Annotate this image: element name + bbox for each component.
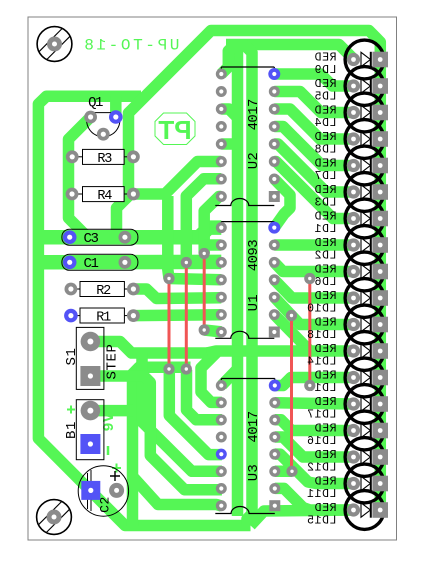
LED LD7 (345, 146, 384, 185)
pad U3 right pin row 5 (269, 449, 280, 460)
pad U2 right pin row 6 (269, 156, 280, 167)
svg-text:RED: RED (314, 502, 337, 515)
wire top bus + LED cathode bus (129, 31, 381, 511)
pad U1 right pin row 1 (blue) (268, 222, 280, 234)
pad U1 left pin row 7 (216, 327, 227, 338)
wire U1 p10 to LD18 (274, 297, 353, 324)
pad B1 plus (81, 401, 101, 421)
svg-text:U1: U1 (246, 294, 262, 311)
wire interior bus 1 (230, 45, 238, 517)
red jumper 1 (168, 279, 171, 370)
LED LD11 (345, 464, 384, 503)
pad R1 right (127, 309, 140, 322)
pad R2 left (65, 283, 78, 296)
LED LD1 (345, 199, 384, 238)
wire U2 p15 to LD5 (274, 74, 353, 86)
svg-text:RED: RED (314, 78, 337, 91)
pad LD7 cathode (square) (372, 158, 388, 174)
wire U2 p11 to LD3 (274, 144, 353, 192)
pad U3 right pin row 1 (blue) (269, 380, 281, 392)
pad R4 right (127, 188, 140, 201)
LED LD10 (345, 279, 384, 318)
pad LD15 cathode (square) (372, 502, 388, 518)
pad U1 right pin row 4 (269, 274, 280, 285)
svg-text:U2: U2 (246, 152, 262, 169)
wire via1 to U3 pin5 (169, 370, 222, 455)
wire U2 pin16 stub (221, 45, 235, 75)
wire V2 to U3 pin6 (142, 353, 222, 471)
pad U3 left pin row 2 (216, 397, 227, 408)
svg-text:LD7: LD7 (314, 170, 337, 183)
pad U2 left pin row 5 (216, 139, 227, 150)
svg-text:RED: RED (314, 475, 337, 488)
via red5 top (304, 273, 315, 284)
LED LD15 (345, 491, 384, 530)
pad LD5 cathode (square) (372, 78, 388, 94)
op-amp U3 outline (221, 378, 274, 380)
red jumper 3 (203, 254, 206, 331)
pad R1 left (blue) (64, 309, 78, 323)
via red1 top (163, 273, 174, 284)
wire via4 to U1 pin7 (204, 330, 221, 332)
pad U2 left pin row 7 (216, 174, 227, 185)
pad U3 pin 1 (square) (269, 500, 280, 511)
wire U2 p13 to LD8 (274, 109, 353, 139)
transistor Q1 (87, 113, 120, 137)
wire jog to C3 band (117, 196, 129, 231)
pad U2 right pin row 7 (269, 174, 280, 185)
mounting hole top-left (37, 27, 72, 62)
pad LD16 anode (347, 424, 360, 437)
wire via2 to U3 pin3 (187, 370, 222, 420)
pad U2 right pin row 1 (blue) (268, 68, 280, 80)
pad U1 right pin row 5 (269, 292, 280, 303)
pad Q1 emitter (84, 111, 97, 124)
pad U1 right pin row 3 (269, 257, 280, 268)
svg-text:R3: R3 (97, 152, 112, 167)
pad U1 left pin row 2 (216, 240, 227, 251)
pad mounting top-left (47, 37, 62, 52)
pad C3 left (blue) (63, 230, 77, 244)
pad LD5 anode (347, 79, 360, 92)
LED LD17 (345, 385, 384, 424)
svg-text:RED: RED (314, 157, 337, 170)
wire GND trunk left (38, 96, 250, 525)
wire R4 to U2 pin11 (133, 162, 221, 195)
svg-text:RED: RED (314, 131, 337, 144)
pad U2 left pin row 1 (216, 69, 227, 80)
wire R2 to U1 pin5 (133, 289, 221, 299)
pad U2 left pin row 6 (216, 156, 227, 167)
svg-text:LD4: LD4 (314, 117, 337, 130)
pad U3 left pin row 4 (216, 432, 227, 443)
green polarity marks B1 (67, 406, 75, 414)
svg-text:RED: RED (314, 263, 337, 276)
pad LD10 cathode (square) (372, 290, 388, 306)
svg-text:RED: RED (314, 290, 337, 303)
pad U3 left pin row 3 (216, 414, 227, 425)
board outline (28, 17, 397, 540)
LED LD4 (345, 93, 384, 132)
pad LD8 cathode (square) (372, 131, 388, 147)
LED LD3 (345, 173, 384, 212)
LED LD6 (345, 252, 384, 291)
pad LD1 cathode (square) (372, 211, 388, 227)
op-amp U1 outline (221, 221, 274, 223)
wire C3 row (44, 228, 221, 238)
wire U3 p12 to LD11 (275, 454, 354, 483)
capacitor C3 (62, 229, 138, 245)
pad R3 right (127, 150, 140, 163)
pad U1 pin 1 (square) (269, 327, 280, 338)
wire via3 to U2 pin9 (204, 197, 221, 254)
svg-text:RED: RED (314, 449, 337, 462)
LED LD12 (345, 438, 384, 477)
svg-text:LD2: LD2 (314, 249, 337, 262)
svg-text:R1: R1 (96, 311, 111, 326)
wire via1 to U1 pin4 (169, 279, 221, 280)
pad LD14 cathode (square) (372, 343, 388, 359)
wire U3 p11 to via (275, 466, 292, 478)
pad LD2 cathode (square) (372, 237, 388, 253)
pad U1 left pin row 3 (216, 257, 227, 268)
wire U1 p13 to LD2 (274, 239, 353, 251)
pad Q1 base (97, 128, 110, 141)
svg-text:4093: 4093 (246, 240, 262, 271)
svg-text:RED: RED (314, 343, 337, 356)
pad R3 left (66, 150, 79, 163)
capacitor C2 (78, 466, 128, 516)
pad U3 right pin row 6 (269, 466, 280, 477)
svg-text:LD18: LD18 (306, 329, 336, 342)
svg-text:RED: RED (314, 104, 337, 117)
svg-text:LD16: LD16 (306, 435, 336, 448)
wire U3 p10 to LD15 band (275, 488, 354, 510)
wire U2 p14 to LD4 (274, 92, 353, 113)
svg-text:RED: RED (314, 369, 337, 382)
svg-text:LD14: LD14 (306, 355, 336, 368)
pad B1 minus (blue square) (80, 434, 100, 454)
wire Q1 collector stub (110, 96, 122, 115)
svg-text:C1: C1 (83, 256, 98, 272)
wire via stub LD18 (292, 316, 298, 322)
resistor R4 (72, 193, 83, 195)
wire U1 p11 to LD10 (274, 280, 353, 298)
pad LD18 anode (347, 318, 360, 331)
svg-text:LD17: LD17 (306, 408, 336, 421)
LED LD8 (345, 120, 384, 159)
pad LD6 cathode (square) (372, 264, 388, 280)
red jumper 2 (185, 263, 188, 370)
pad U3 left pin row 7 (216, 483, 227, 494)
svg-text:LD10: LD10 (306, 302, 336, 315)
wire S1 square to U3 pin7 (90, 376, 222, 490)
pad U2 left pin row 2 (216, 86, 227, 97)
pad C1 right (119, 256, 132, 269)
svg-text:U3: U3 (246, 464, 262, 481)
wire U2 p9 to U1 p16 (274, 179, 290, 228)
svg-text:R4: R4 (97, 189, 112, 204)
wire U2 pin12 stub (221, 138, 237, 150)
svg-text:PT: PT (158, 115, 191, 145)
wire via stub LD6 (306, 273, 314, 279)
pad LD3 cathode (square) (372, 184, 388, 200)
pad LD15 anode (347, 503, 360, 516)
wire band2 to LD9 (226, 45, 354, 60)
wire interior bus 2 (244, 45, 252, 525)
pad U2 right pin row 5 (269, 139, 280, 150)
capacitor C1 (62, 254, 138, 270)
svg-text:LD12: LD12 (306, 461, 336, 474)
LED LD2 (345, 226, 384, 265)
pad Q1 collector (blue) (109, 110, 123, 124)
svg-text:RED: RED (314, 51, 337, 64)
svg-text:LD1: LD1 (314, 223, 337, 236)
pad U1 left pin row 4 (216, 274, 227, 285)
wire U3 p13 to LD12 (275, 437, 354, 457)
pad LD9 cathode (square) (372, 52, 388, 68)
pad LD17 cathode (square) (372, 396, 388, 412)
pad U3 right pin row 7 (269, 483, 280, 494)
wire U3 p15 to LD17 (275, 403, 354, 404)
LED LD5 (345, 67, 384, 106)
wire S1 top to U3 pin2 (90, 342, 222, 403)
pad C3 right (119, 231, 132, 244)
svg-text:R2: R2 (96, 284, 111, 299)
pad LD1 anode (347, 212, 360, 225)
LED LD16 (345, 411, 384, 450)
via red2 top (181, 257, 192, 268)
pad LD13 cathode (square) (372, 370, 388, 386)
pad LD6 anode (347, 265, 360, 278)
svg-text:RED: RED (314, 316, 337, 329)
green plus mark C2 (112, 464, 121, 473)
pad U2 pin 1 (square) (269, 191, 280, 202)
pad U3 right pin row 2 (269, 397, 280, 408)
wire bottom band to LD15 (251, 510, 354, 526)
mounting hole bottom-left (37, 500, 72, 535)
resistor R2 (71, 288, 80, 290)
via red3 top (199, 248, 210, 259)
wire S1 band to LD14 row (207, 351, 312, 353)
svg-text:B1: B1 (64, 421, 80, 439)
wire V1 to U3 pin8 (134, 478, 222, 506)
pad U3 right pin row 3 (269, 414, 280, 425)
pad C1 left (blue) (63, 255, 77, 269)
wire bus to U3 pin1 (222, 370, 237, 386)
svg-text:C3: C3 (83, 231, 98, 247)
LED LD9 (345, 40, 384, 79)
red jumper 5 (308, 279, 311, 386)
svg-text:RED: RED (314, 422, 337, 435)
svg-text:RED: RED (314, 184, 337, 197)
pad U1 left pin row 6 (216, 309, 227, 320)
resistor R3 (72, 156, 82, 158)
via red1 bottom (163, 363, 174, 374)
pad U2 left pin row 3 (216, 104, 227, 115)
svg-text:STEP: STEP (105, 343, 121, 379)
logo TP octagon (155, 113, 195, 145)
via red2 bottom (181, 363, 192, 374)
pad R2 right (127, 283, 140, 296)
pad LD17 anode (347, 397, 360, 410)
svg-text:S1: S1 (64, 347, 80, 365)
pad LD4 anode (347, 106, 360, 119)
pad U2 right pin row 3 (269, 104, 280, 115)
wire U1 p12 to LD6 (274, 262, 353, 271)
wire C1 row (44, 255, 221, 270)
via red5 bottom (304, 380, 315, 391)
svg-text:LD6: LD6 (314, 276, 337, 289)
svg-text:LD11: LD11 (306, 488, 336, 501)
pad U1 right pin row 2 (269, 240, 280, 251)
pad U1 left pin row 1 (216, 222, 227, 233)
pad C2 plus (109, 483, 124, 498)
op-amp U2 outline (221, 66, 274, 68)
wire R4 descender to via1 (168, 196, 169, 279)
via red4 top (286, 310, 297, 321)
switch S1 (76, 327, 104, 389)
LED LD13 (345, 358, 384, 397)
wire U1 p9 to LD14 (274, 315, 353, 351)
pad C2 minus (blue square) (81, 481, 100, 500)
pad LD13 anode (347, 371, 360, 384)
pad LD18 cathode (square) (372, 317, 388, 333)
wire U2 p12 to LD7 (274, 127, 353, 166)
pad U3 left pin row 5 (216, 449, 227, 460)
pad LD12 cathode (square) (372, 449, 388, 465)
pad LD9 anode (347, 53, 360, 66)
pad LD11 anode (347, 477, 360, 490)
svg-text:LD3: LD3 (314, 196, 337, 209)
red jumper 4 (290, 316, 293, 472)
wire U2 p10 to LD1 (274, 162, 353, 219)
pad LD3 anode (347, 185, 360, 198)
LED LD14 (345, 332, 384, 371)
pad S1 bottom (square) (80, 366, 100, 386)
pad LD4 cathode (square) (372, 105, 388, 121)
battery B1 (76, 400, 104, 460)
pad R4 left (66, 188, 79, 201)
svg-text:LD9: LD9 (314, 64, 337, 77)
pad U1 left pin row 5 (216, 292, 227, 303)
svg-text:4017: 4017 (246, 99, 262, 130)
via red4 bottom (286, 466, 297, 477)
pad U2 right pin row 4 (269, 121, 280, 132)
pad U3 left pin row 6 (216, 466, 227, 477)
pad U3 left pin row 1 (216, 380, 227, 391)
pad U3 right pin row 4 (269, 432, 280, 443)
pad LD14 anode (347, 344, 360, 357)
wire U2 pin14 stub (221, 109, 237, 118)
wire B1 plus to V1 (90, 405, 133, 417)
wire via2 to U2 pin10 (186, 179, 221, 264)
pad mounting bottom-left (47, 510, 62, 525)
svg-text:LD15: LD15 (306, 514, 336, 527)
wire R1 to U1 pin6 (133, 309, 221, 321)
LED LD18 (345, 305, 384, 344)
wire U3 p16 to LD13 (275, 378, 354, 386)
wire via3 tee to U1 pin2 (204, 239, 221, 251)
pad S1 top (81, 332, 101, 352)
pad LD2 anode (347, 238, 360, 251)
via red3 bottom (199, 324, 210, 335)
svg-text:LD5: LD5 (314, 90, 337, 103)
pad U1 right pin row 6 (269, 309, 280, 320)
svg-text:RED: RED (314, 396, 337, 409)
pad LD8 anode (347, 132, 360, 145)
wire Q1 to C3 band (69, 117, 91, 237)
pad LD10 anode (347, 291, 360, 304)
svg-text:RED: RED (314, 237, 337, 250)
svg-text:RED: RED (314, 210, 337, 223)
wire U3 p14 to LD16 (275, 420, 354, 431)
pad LD11 cathode (square) (372, 476, 388, 492)
wire via band to bottom via V1 (133, 367, 191, 526)
pad U2 right pin row 2 (269, 86, 280, 97)
pad LD12 anode (347, 450, 360, 463)
pad U3 left pin row 8 (216, 500, 227, 511)
svg-text:4017: 4017 (246, 411, 262, 442)
pad U2 left pin row 4 (216, 121, 227, 132)
pad LD16 cathode (square) (372, 423, 388, 439)
pad U2 left pin row 8 (216, 191, 227, 202)
svg-text:UP-TO-18: UP-TO-18 (82, 37, 180, 55)
svg-text:LD8: LD8 (314, 143, 337, 156)
resistor R1 (71, 315, 80, 317)
pad LD7 anode (347, 159, 360, 172)
svg-text:Q1: Q1 (88, 95, 103, 111)
